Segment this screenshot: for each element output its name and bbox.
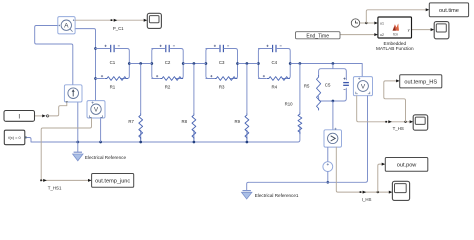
- wire I to current source ctrl port: [49, 103, 67, 116]
- node dot clock branch: [365, 22, 367, 24]
- resistor R7: [137, 113, 144, 139]
- resistor R9 label: [235, 119, 241, 124]
- arrow into scope I_HS: [389, 191, 393, 194]
- label T_HS: [393, 126, 404, 131]
- resistor R4: [267, 75, 290, 81]
- svg-text:T_HS: T_HS: [393, 126, 404, 131]
- svg-text:out.time: out.time: [439, 8, 459, 14]
- node dot left of C3 loop: [205, 62, 208, 65]
- arrow into out.pow: [382, 163, 386, 166]
- resistor R1 value label: [110, 84, 116, 89]
- wire T_HS to out.temp_HS: [384, 81, 406, 122]
- svg-text:R2: R2: [165, 84, 171, 89]
- wire fcn y to scope2: [412, 29, 431, 31]
- node dot right of C1 loop: [128, 62, 131, 65]
- label I_HS: [362, 197, 372, 202]
- resistor R7 label: [128, 119, 134, 124]
- resistor R3: [214, 75, 237, 81]
- node dot R8 bottom: [193, 141, 196, 144]
- inport block I: [4, 111, 35, 122]
- wire R7 branch: [140, 64, 142, 143]
- label Electrical Reference: [85, 155, 127, 160]
- wire P_C1 signal: [75, 19, 144, 21]
- resistor R2 polarity mark: [156, 75, 158, 77]
- label T_HS1: [48, 185, 62, 190]
- capacitor C5 polarity marks: [343, 78, 345, 90]
- capacitor C5 value label: [325, 82, 331, 87]
- wire flow sensor to ambient source: [327, 147, 329, 162]
- svg-text:R4: R4: [271, 84, 277, 89]
- svg-text:R1: R1: [110, 84, 116, 89]
- svg-text:C5: C5: [325, 82, 331, 87]
- capacitor C2 polarity marks: [160, 45, 175, 47]
- resistor R4 value label: [271, 84, 277, 89]
- arrow into scope T_HS: [410, 120, 414, 123]
- node A junction dot (R1 branch): [94, 77, 97, 80]
- wire ground stub: [77, 142, 79, 152]
- label Embedded MATLAB Function: [376, 41, 414, 51]
- svg-text:u2: u2: [380, 33, 384, 37]
- Embedded MATLAB Function block: [378, 17, 412, 38]
- svg-text:fcn: fcn: [393, 32, 398, 36]
- resistor R8: [191, 113, 198, 139]
- ground Electrical Reference: [73, 152, 83, 161]
- wire I_HS to out.pow: [378, 164, 382, 192]
- capacitor C4 value label: [271, 60, 277, 65]
- outport out.pow: [385, 158, 428, 172]
- resistor R9: [244, 113, 251, 139]
- arrow T_HS mid: [385, 120, 392, 123]
- node dot R8 tap: [193, 62, 196, 65]
- node dot R9 tap: [246, 62, 249, 65]
- wire bus segment 1: [129, 63, 152, 65]
- svg-text:R5: R5: [304, 83, 310, 88]
- node dot C5 bottom: [332, 100, 335, 103]
- capacitor C1 value label: [110, 60, 116, 65]
- parallel loop R5/C5: [319, 69, 347, 101]
- wire current source to ground bus: [77, 102, 79, 142]
- node dot right of C3 loop: [236, 62, 239, 65]
- outport out.temp_HS: [400, 75, 442, 88]
- arrow into out.temp_HS: [396, 79, 400, 82]
- node dot R9 bottom: [246, 141, 249, 144]
- wire ammeter to current source: [35, 26, 73, 85]
- svg-text:f(x) = 0: f(x) = 0: [8, 135, 21, 140]
- node dot current source ground: [76, 141, 79, 144]
- node dot R7 tap: [139, 62, 142, 65]
- ground Electrical Reference1: [242, 191, 252, 199]
- svg-text:R8: R8: [182, 119, 188, 124]
- arrow I_HS mid: [360, 191, 367, 194]
- svg-text:P_C1: P_C1: [113, 26, 124, 31]
- controlled current source U2 (heat flow): [64, 85, 82, 103]
- resistor R3 value label: [219, 84, 225, 89]
- parallel RC loop C3/R3: [206, 49, 238, 79]
- svg-text:V: V: [361, 83, 366, 90]
- arrow into fcn u1: [374, 21, 378, 24]
- node dot C5 stub: [332, 62, 335, 65]
- resistor R5 label: [304, 83, 310, 88]
- wire I_HS signal: [336, 147, 389, 192]
- wire End_Time to fcn u2: [340, 34, 374, 36]
- svg-text:C3: C3: [219, 60, 225, 65]
- svg-text:I: I: [18, 113, 20, 120]
- scope Scope2 (fcn y): [434, 22, 449, 39]
- svg-text:R9: R9: [235, 119, 241, 124]
- node dot R10 tap: [299, 62, 302, 65]
- svg-text:u1: u1: [380, 22, 384, 26]
- arrow into fcn u2: [374, 33, 378, 36]
- svg-text:R7: R7: [128, 119, 134, 124]
- svg-text:out.temp_HS: out.temp_HS: [404, 79, 437, 85]
- wire solver config to ground bus: [25, 138, 31, 143]
- node dot voltage sensor U3 ground: [99, 141, 102, 144]
- wire C5 to heat flow sensor: [332, 101, 334, 130]
- wire bus segment 3: [238, 63, 259, 65]
- capacitor C4 polarity marks: [266, 45, 281, 47]
- arrow into out.time: [426, 8, 430, 11]
- wire clock to out.time: [366, 10, 425, 23]
- svg-text:Electrical Reference1: Electrical Reference1: [255, 193, 299, 198]
- current sensor U1 (ammeter): [58, 17, 75, 34]
- capacitor C3 value label: [219, 60, 225, 65]
- svg-text:V: V: [94, 107, 99, 114]
- wire T_HS1 signal: [41, 118, 91, 180]
- wire I input signal: [35, 114, 49, 117]
- resistor R3 polarity mark: [210, 75, 212, 77]
- node dot left of C2 loop: [150, 62, 153, 65]
- capacitor C1 polarity marks: [105, 45, 120, 47]
- svg-text:R3: R3: [219, 84, 225, 89]
- resistor R8 label: [182, 119, 188, 124]
- resistor R5: [317, 76, 321, 111]
- resistor R4 polarity mark: [263, 75, 265, 77]
- wire bus segment 4: [290, 63, 362, 65]
- wire R8 branch: [193, 64, 195, 143]
- capacitor C2: [164, 44, 171, 52]
- parallel RC loop C1/R1: [96, 49, 130, 79]
- label Electrical Reference1: [255, 193, 299, 198]
- node dot I_HS branch: [377, 191, 379, 193]
- capacitor C3: [218, 44, 225, 52]
- constant block End_Time: [296, 32, 341, 40]
- node dot T_HS branch: [404, 121, 406, 123]
- voltage sensor U3: [87, 101, 105, 118]
- svg-text:y: y: [408, 28, 410, 32]
- node dot left of C4 loop: [257, 62, 260, 65]
- capacitor C2 value label: [165, 60, 171, 65]
- arrow P_C1 mid: [111, 19, 118, 22]
- scope Scope4 (I_HS): [392, 181, 409, 200]
- svg-text:End_Time: End_Time: [306, 33, 329, 39]
- capacitor C4: [271, 44, 278, 52]
- capacitor C5: [343, 83, 349, 86]
- wire voltage sensor U3 to ground bus: [100, 118, 102, 142]
- arrow into scope1: [144, 19, 148, 22]
- resistor R1: [105, 75, 128, 81]
- wire right ground bus: [248, 96, 367, 183]
- outport out.time: [429, 3, 468, 17]
- scope Scope3 (T_HS): [413, 115, 428, 130]
- svg-text:out.pow: out.pow: [397, 162, 418, 168]
- wire ammeter to node A column: [75, 29, 95, 101]
- wire bus down into voltage sensor U4: [361, 64, 363, 77]
- wire clock to fcn u1: [360, 22, 375, 24]
- label P_C1: [113, 26, 124, 31]
- wire R9 branch: [246, 64, 248, 143]
- resistor R2: [160, 75, 183, 81]
- wire ground1 stub: [247, 182, 249, 190]
- node dot R7 bottom: [139, 141, 142, 144]
- scope Scope1 (P_C1): [147, 13, 161, 28]
- resistor R2 value label: [165, 84, 171, 89]
- resistor R1 polarity mark: [101, 75, 103, 77]
- temperature source (ambient): [323, 162, 333, 172]
- node A junction dot (C1 branch): [94, 47, 97, 50]
- svg-text:T_HS1: T_HS1: [48, 185, 62, 190]
- svg-text:MATLAB Function: MATLAB Function: [376, 46, 414, 51]
- node dot right of C2 loop: [182, 62, 185, 65]
- arrow into scope2: [431, 28, 435, 31]
- resistor R10: [297, 112, 304, 133]
- heat flow sensor U5: [324, 128, 342, 147]
- wire C5 stub from bus: [332, 64, 334, 69]
- voltage sensor U4: [353, 77, 372, 96]
- wire R10 branch: [247, 64, 300, 143]
- svg-text:R10: R10: [285, 102, 293, 107]
- svg-text:C4: C4: [271, 60, 277, 65]
- clock block: [351, 19, 359, 27]
- solver configuration f(x)=0: [4, 130, 26, 145]
- arrow T_HS1 mid: [40, 179, 47, 182]
- parallel RC loop C2/R2: [152, 49, 183, 79]
- wire T_HS signal: [357, 96, 410, 122]
- capacitor C1: [109, 44, 116, 52]
- svg-text:out.temp_junc: out.temp_junc: [95, 178, 130, 184]
- wire bottom ground bus: [31, 141, 247, 143]
- outport out.temp_junc: [92, 174, 134, 188]
- node dot right ground bus: [326, 181, 329, 184]
- svg-text:C2: C2: [165, 60, 171, 65]
- arrow into out.temp_junc: [88, 179, 92, 182]
- resistor R10 label: [285, 102, 293, 107]
- node dot right of C4 loop: [289, 62, 292, 65]
- capacitor C3 polarity marks: [214, 45, 229, 47]
- wire bus segment 2: [183, 63, 206, 65]
- svg-text:C1: C1: [110, 60, 116, 65]
- svg-text:Electrical Reference: Electrical Reference: [85, 155, 127, 160]
- parallel RC loop C4/R4: [258, 49, 290, 79]
- svg-text:I_HS: I_HS: [362, 197, 372, 202]
- svg-text:A: A: [64, 23, 69, 30]
- wire ambient source to ground bus: [327, 172, 329, 183]
